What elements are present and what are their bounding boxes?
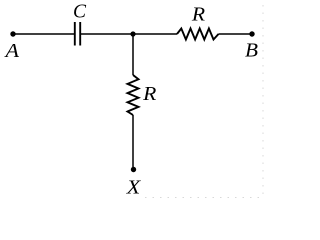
svg-text:A: A <box>3 40 20 62</box>
dotted border right edge <box>262 5 264 199</box>
capacitor C <box>73 1 87 46</box>
svg-text:R: R <box>191 4 205 26</box>
wire <box>132 115 134 167</box>
wire <box>132 34 134 75</box>
node junction <box>130 31 135 36</box>
resistor R (horizontal) <box>177 4 219 40</box>
wire <box>81 33 133 35</box>
node X <box>126 167 141 199</box>
wire <box>219 33 253 35</box>
svg-text:X: X <box>126 176 141 198</box>
wire <box>133 33 177 35</box>
node B <box>245 31 258 61</box>
wire <box>13 33 74 35</box>
resistor R (vertical) <box>128 75 157 115</box>
svg-text:B: B <box>245 40 258 62</box>
dotted border bottom edge <box>145 197 264 199</box>
svg-text:C: C <box>73 1 87 23</box>
node A <box>3 31 20 62</box>
svg-text:R: R <box>142 83 156 105</box>
